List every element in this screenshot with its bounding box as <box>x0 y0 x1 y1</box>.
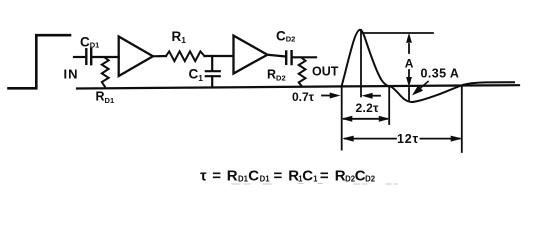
wire R1 to amp U2 <box>205 55 234 57</box>
svg-text:12τ: 12τ <box>397 132 419 146</box>
arrow right of 0.7tau dimension <box>322 93 340 98</box>
resistor RD1 <box>102 58 109 87</box>
wire CD2 to OUT <box>293 56 316 58</box>
arrow left-tip at peak line of 0.7tau dimension <box>363 93 380 98</box>
dimension vertical line at pulse peak <box>360 30 362 97</box>
capacitor CD2 <box>286 51 291 64</box>
svg-text:0.7τ: 0.7τ <box>292 90 315 104</box>
svg-text:IN: IN <box>64 67 79 82</box>
wire IN input <box>74 56 85 58</box>
scan artifact dashes under equation <box>232 183 397 186</box>
input step waveform <box>9 35 71 88</box>
arrow up of A dimension <box>407 34 412 53</box>
svg-text:OUT: OUT <box>312 65 339 79</box>
op-amp U1 <box>119 37 153 77</box>
undershoot depth tick <box>408 88 410 101</box>
dimension vertical line at 12-tau <box>461 85 463 152</box>
dimension vertical line at pulse start <box>341 86 343 149</box>
capacitor C1 <box>206 56 220 87</box>
wire U1 to R1 <box>153 55 166 57</box>
arrow pointer to undershoot 0.35A <box>413 82 428 95</box>
dimension vertical line at zero crossing <box>388 86 390 124</box>
output pulse waveform curve <box>342 30 515 102</box>
wire U2 to CD2 <box>267 55 284 57</box>
resistor R1 <box>166 51 205 61</box>
capacitor CD1 <box>86 49 91 64</box>
wire CD1 to amp U1 <box>92 56 118 58</box>
dimension line 12tau <box>343 136 461 141</box>
amplitude reference top line <box>363 32 433 34</box>
op-amp U2 <box>234 36 268 74</box>
svg-text:2.2τ: 2.2τ <box>356 101 380 115</box>
svg-text:A: A <box>405 57 414 71</box>
resistor RD2 <box>299 58 306 86</box>
arrow down of A dimension <box>407 70 412 86</box>
ground rail wire <box>77 85 519 88</box>
svg-text:0.35 A: 0.35 A <box>421 67 460 81</box>
dimension line 2.2tau <box>342 116 389 121</box>
